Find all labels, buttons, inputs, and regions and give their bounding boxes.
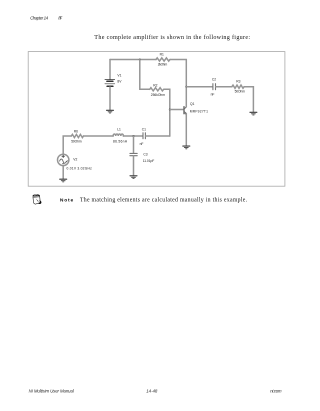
svg-text:Note: Note xyxy=(60,198,74,204)
svg-text:NI Multisim User Manual: NI Multisim User Manual xyxy=(29,388,75,393)
svg-text:C3: C3 xyxy=(143,153,147,157)
inductor L1 xyxy=(113,134,123,136)
svg-text:Q1: Q1 xyxy=(190,102,195,106)
transistor Q1 xyxy=(184,107,187,115)
wire V1 bottom lead xyxy=(109,87,111,110)
svg-text:R1: R1 xyxy=(160,53,164,57)
resistor R1 xyxy=(156,58,170,61)
svg-text:86.56nH: 86.56nH xyxy=(113,140,128,144)
capacitor C1 xyxy=(143,133,145,139)
wire R6 to L1 xyxy=(83,135,113,137)
svg-text:C1: C1 xyxy=(142,128,146,132)
svg-text:R6: R6 xyxy=(74,130,78,134)
ground under C3 xyxy=(130,176,137,179)
svg-text:nF: nF xyxy=(211,92,215,96)
note icon xyxy=(33,195,42,204)
svg-text:50Ohm: 50Ohm xyxy=(235,89,246,93)
ground under Q1 emitter xyxy=(183,146,190,149)
note text xyxy=(60,198,248,204)
ground under R3 xyxy=(250,112,257,115)
ground under V1 xyxy=(107,110,114,113)
node top rail / bias tap xyxy=(139,59,141,61)
title text xyxy=(94,34,250,41)
svg-text:ni.com: ni.com xyxy=(270,388,282,393)
node base tap xyxy=(169,109,171,111)
svg-text:14-48: 14-48 xyxy=(146,388,158,393)
wire output tap to C2 xyxy=(186,86,212,88)
node input matching xyxy=(133,135,135,137)
wire bias drop to R2 xyxy=(140,60,150,90)
wire R3 to load ground xyxy=(244,87,253,112)
svg-text:The complete amplifier is show: The complete amplifier is shown in the f… xyxy=(94,34,250,41)
wire collector column xyxy=(185,60,187,107)
svg-text:50Ohm: 50Ohm xyxy=(71,140,82,144)
svg-text:11.01pF: 11.01pF xyxy=(143,159,155,163)
wire node to C3 xyxy=(133,136,135,153)
source V2 xyxy=(58,154,69,165)
capacitor C3 xyxy=(130,153,137,155)
wire L1 to C1 xyxy=(123,135,142,137)
wire top rail V1 to R1 xyxy=(110,59,156,61)
resistor R2 xyxy=(150,88,164,91)
svg-text:The matching elements are calc: The matching elements are calculated man… xyxy=(80,198,248,204)
header chapter text xyxy=(30,16,62,21)
wire V1 top lead xyxy=(109,60,111,80)
battery V1 xyxy=(105,80,115,87)
svg-text:MRF927T1: MRF927T1 xyxy=(190,109,208,113)
node collector output tap xyxy=(185,86,187,88)
ground under V2 xyxy=(60,179,67,182)
resistor R6 xyxy=(71,134,83,137)
svg-text:0.01V 3.02GHz: 0.01V 3.02GHz xyxy=(67,167,93,171)
wire base lead xyxy=(170,109,184,111)
svg-text:R3: R3 xyxy=(236,79,240,83)
svg-text:V2: V2 xyxy=(73,158,77,162)
resistor R3 xyxy=(232,85,244,88)
svg-text:Chapter 14: Chapter 14 xyxy=(30,16,49,21)
svg-text:R2: R2 xyxy=(153,83,157,87)
wire top rail R1 to collector corner xyxy=(170,59,186,61)
svg-text:C2: C2 xyxy=(212,77,216,81)
wire V2 bottom lead xyxy=(62,166,64,179)
capacitor C2 xyxy=(213,84,216,90)
wire V2 to R6 xyxy=(63,136,71,154)
footer xyxy=(29,388,282,393)
wire R2 to base column xyxy=(164,89,170,136)
svg-text:2kOhm: 2kOhm xyxy=(158,63,168,67)
svg-text:nF: nF xyxy=(140,142,144,146)
svg-text:L1: L1 xyxy=(117,128,121,132)
wire C2 to R3 xyxy=(216,86,232,88)
svg-text:256kOhm: 256kOhm xyxy=(151,93,165,97)
wire emitter lead xyxy=(185,114,187,146)
wire C3 to ground xyxy=(133,156,135,176)
svg-text:RF: RF xyxy=(58,16,62,21)
wire C1 to base column xyxy=(146,135,170,137)
svg-text:V1: V1 xyxy=(117,74,121,78)
